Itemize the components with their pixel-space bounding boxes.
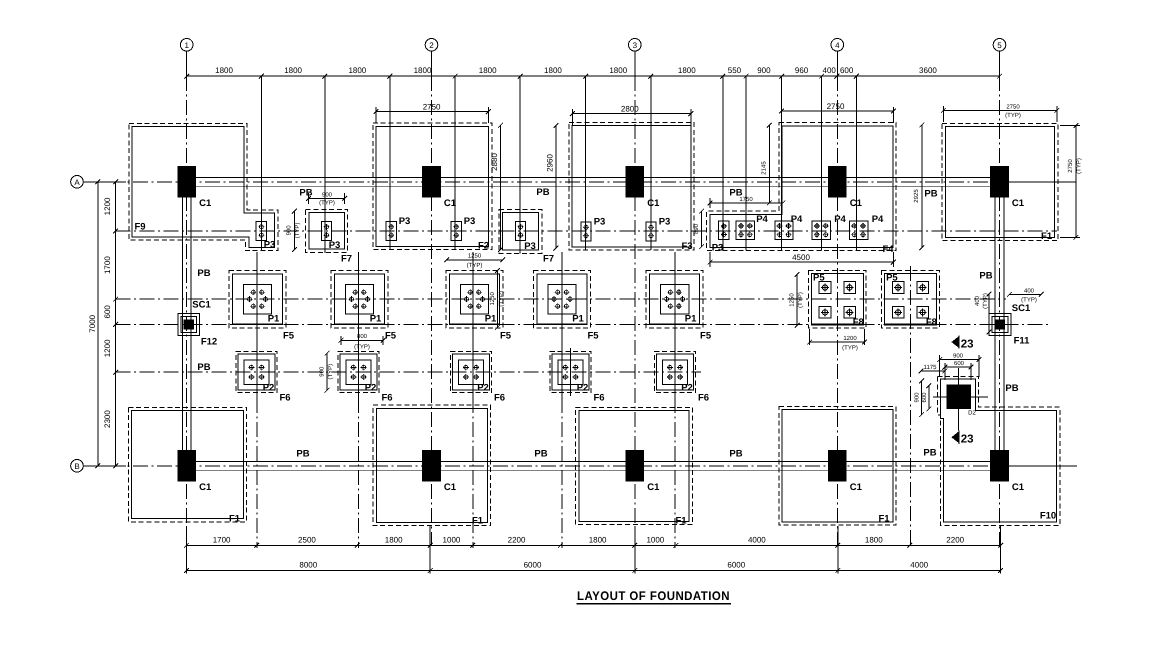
dimension 1750 in F4 strip bbox=[708, 196, 785, 208]
dimension tick bbox=[632, 568, 637, 573]
svg-text:(TYP): (TYP) bbox=[1076, 158, 1083, 174]
dimension tick bbox=[835, 74, 840, 79]
svg-text:F5: F5 bbox=[500, 331, 512, 342]
footing F1 bottom row bbox=[576, 407, 693, 524]
pier centerline vertical bbox=[781, 76, 783, 250]
pier P5 cell bbox=[917, 307, 929, 319]
pier P4 #3 bbox=[812, 221, 830, 239]
footing F1 top-right bbox=[942, 123, 1058, 240]
svg-text:(TYP): (TYP) bbox=[842, 344, 858, 351]
dimension tick bbox=[720, 74, 725, 79]
dimension tick bbox=[835, 568, 840, 573]
footing F2 bbox=[373, 123, 492, 249]
pier centerline vertical bbox=[260, 76, 262, 251]
beam PB along grid 5 bbox=[995, 198, 1004, 450]
svg-text:1250: 1250 bbox=[468, 253, 482, 260]
svg-text:P4: P4 bbox=[834, 214, 846, 225]
svg-text:F1: F1 bbox=[472, 516, 484, 527]
svg-text:PB: PB bbox=[1005, 383, 1018, 394]
svg-text:PB: PB bbox=[296, 449, 309, 460]
dimension tick bbox=[779, 74, 784, 79]
dimension tick bbox=[835, 543, 840, 548]
svg-text:2880: 2880 bbox=[490, 153, 499, 171]
dimension tick bbox=[322, 74, 327, 79]
svg-text:900: 900 bbox=[953, 352, 964, 359]
footing F5 #2 bbox=[331, 271, 388, 328]
grid bubble 4 bbox=[831, 39, 844, 77]
dimension 2750 (TYP) above F1 top-right bbox=[941, 103, 1059, 122]
pier P3 in F3 right bbox=[646, 222, 656, 241]
svg-text:P3: P3 bbox=[712, 242, 724, 253]
svg-text:PB: PB bbox=[197, 362, 210, 373]
dimension 1175 left of D2 bbox=[919, 364, 948, 374]
dimension tick bbox=[819, 74, 824, 79]
svg-text:5: 5 bbox=[997, 41, 1002, 50]
footing F7 #1 bbox=[306, 210, 348, 253]
column C1 bbox=[422, 450, 441, 482]
beam PB along grid 1 bbox=[182, 198, 191, 450]
pier P3 in F7#1 bbox=[321, 222, 331, 241]
grid line B centerline bbox=[85, 465, 1010, 467]
svg-text:LAYOUT OF FOUNDATION: LAYOUT OF FOUNDATION bbox=[577, 589, 730, 603]
pier centerline vertical bbox=[519, 76, 521, 253]
svg-text:3: 3 bbox=[633, 41, 638, 50]
svg-text:600: 600 bbox=[954, 360, 965, 367]
pier centerline vertical bbox=[722, 76, 724, 250]
svg-text:C1: C1 bbox=[647, 482, 660, 493]
dimension tick bbox=[453, 74, 458, 79]
svg-text:F5: F5 bbox=[700, 331, 712, 342]
pier column centerline bbox=[358, 252, 360, 398]
footing F6 #2 bbox=[338, 352, 379, 393]
footing F1 bottom row bbox=[373, 405, 490, 526]
svg-text:P1: P1 bbox=[268, 314, 280, 325]
svg-text:1000: 1000 bbox=[646, 535, 664, 544]
svg-text:600: 600 bbox=[840, 66, 854, 75]
svg-text:P2: P2 bbox=[681, 383, 693, 394]
svg-text:900: 900 bbox=[286, 225, 293, 236]
svg-text:4000: 4000 bbox=[748, 535, 766, 544]
dimension 600 left of D2 vertical bbox=[921, 383, 931, 411]
pier P2 #4 bbox=[558, 360, 583, 384]
title LAYOUT OF FOUNDATION bbox=[577, 589, 732, 604]
dimension tick bbox=[583, 74, 588, 79]
svg-text:1800: 1800 bbox=[678, 66, 696, 75]
pier P1 #5 bbox=[660, 285, 688, 314]
pier centerline vertical bbox=[454, 76, 456, 249]
svg-text:2750: 2750 bbox=[423, 102, 441, 111]
pier column centerline bbox=[674, 252, 676, 398]
svg-text:P3: P3 bbox=[399, 216, 411, 227]
footing F4 inner line bbox=[710, 126, 893, 247]
dimension 400 (TYP) above SC1 right bbox=[1007, 287, 1044, 303]
column C1 bbox=[990, 450, 1009, 482]
svg-text:F6: F6 bbox=[698, 393, 709, 404]
dimension tick bbox=[388, 74, 393, 79]
svg-text:2200: 2200 bbox=[508, 535, 526, 544]
svg-text:C1: C1 bbox=[444, 482, 457, 493]
svg-text:1800: 1800 bbox=[479, 66, 497, 75]
svg-text:F6: F6 bbox=[494, 393, 505, 404]
svg-text:1800: 1800 bbox=[348, 66, 366, 75]
svg-text:3600: 3600 bbox=[919, 66, 937, 75]
svg-text:960: 960 bbox=[795, 66, 809, 75]
svg-text:PB: PB bbox=[729, 449, 742, 460]
dimension 900 (TYP) left of F7#1 bbox=[286, 209, 302, 252]
section marker 23 lower bbox=[951, 431, 973, 446]
svg-text:1800: 1800 bbox=[544, 66, 562, 75]
svg-text:400: 400 bbox=[823, 66, 837, 75]
svg-text:B: B bbox=[74, 462, 79, 471]
top dimension line bbox=[187, 75, 1000, 77]
svg-text:F9: F9 bbox=[134, 222, 145, 233]
svg-text:PB: PB bbox=[924, 189, 937, 200]
footing F9 inner line bbox=[132, 127, 275, 248]
svg-text:SC1: SC1 bbox=[192, 300, 211, 311]
dimension tick bbox=[428, 543, 433, 548]
pier P3 in F4 strip bbox=[719, 221, 729, 240]
column C1 bbox=[625, 450, 644, 482]
pier centerline vertical bbox=[821, 76, 823, 250]
column C1 bbox=[625, 166, 644, 198]
svg-text:F7: F7 bbox=[543, 254, 554, 265]
svg-text:P2: P2 bbox=[477, 383, 489, 394]
svg-text:P3: P3 bbox=[594, 217, 606, 228]
footing F8 #1 bbox=[808, 271, 866, 329]
svg-text:C1: C1 bbox=[1012, 482, 1025, 493]
svg-text:P1: P1 bbox=[685, 314, 697, 325]
pier P3 in F7#2 bbox=[515, 222, 525, 241]
pier P2 #5 bbox=[663, 360, 688, 384]
svg-text:F5: F5 bbox=[385, 331, 397, 342]
footing F4 (L-shaped) outer dashed bbox=[707, 123, 896, 251]
svg-text:1700: 1700 bbox=[103, 256, 112, 274]
svg-text:1000: 1000 bbox=[443, 535, 461, 544]
svg-text:900: 900 bbox=[914, 392, 921, 403]
pier P5 cell bbox=[844, 282, 856, 294]
grid bubble A bbox=[71, 176, 126, 189]
pier column centerline bbox=[472, 252, 474, 398]
footing F10 inner line bbox=[941, 379, 1057, 522]
dimension 1200 (TYP) below F8#1 bbox=[807, 329, 867, 351]
dimension tick bbox=[998, 568, 1003, 573]
svg-text:4500: 4500 bbox=[792, 253, 810, 262]
pier P1 #4 bbox=[548, 285, 576, 314]
dimension tick bbox=[998, 543, 1003, 548]
svg-text:900: 900 bbox=[757, 66, 771, 75]
pier D2 bbox=[933, 368, 988, 431]
footing F5 #4 bbox=[533, 271, 590, 328]
pier P4 #4 bbox=[849, 221, 867, 239]
footing F3 bbox=[569, 122, 694, 250]
dimension 890 left of F4 strip bbox=[693, 209, 704, 249]
grid line 3 centerline bbox=[634, 76, 636, 545]
dimension 800 (TYP) above F6#2 bbox=[339, 333, 386, 350]
pier P1 #3 bbox=[460, 285, 488, 314]
dimension tick bbox=[518, 74, 523, 79]
svg-text:(TYP): (TYP) bbox=[982, 293, 989, 309]
svg-text:(TYP): (TYP) bbox=[354, 344, 370, 351]
svg-text:1200: 1200 bbox=[103, 197, 112, 215]
dimension 2960 left of F3 bbox=[545, 123, 558, 251]
pier column centerline bbox=[256, 252, 258, 398]
svg-text:F7: F7 bbox=[341, 253, 352, 264]
svg-text:4000: 4000 bbox=[910, 561, 928, 570]
dimension tick bbox=[674, 543, 679, 548]
svg-text:2300: 2300 bbox=[103, 410, 112, 428]
pier P4 #1 bbox=[736, 221, 754, 239]
dimension 1250 (TYP) right of F5#3 bbox=[489, 268, 505, 330]
pier P3 in F2 right bbox=[451, 222, 461, 241]
grid bubble B bbox=[71, 460, 126, 473]
footing F1 bottom row bbox=[128, 407, 246, 522]
footing F6 #5 bbox=[654, 352, 695, 393]
footing F8#2 centerline bbox=[909, 266, 911, 548]
footing F1 bottom row bbox=[779, 406, 896, 525]
svg-text:SC1: SC1 bbox=[1012, 303, 1031, 314]
svg-text:6000: 6000 bbox=[524, 561, 542, 570]
grid bubble 1 bbox=[180, 39, 193, 77]
grid line 5 centerline bbox=[999, 76, 1001, 545]
pier P5 cell bbox=[819, 282, 831, 294]
dimension tick bbox=[470, 543, 475, 548]
footing F9 (stepped) outer dashed bbox=[129, 124, 278, 251]
pier centerline vertical bbox=[650, 76, 652, 250]
footing F5 #5 bbox=[646, 271, 703, 328]
pier P4 #2 bbox=[775, 221, 793, 239]
svg-text:F6: F6 bbox=[279, 393, 290, 404]
dimension tick bbox=[355, 543, 360, 548]
svg-text:900: 900 bbox=[322, 191, 333, 198]
pier P1 #2 bbox=[345, 285, 373, 314]
svg-text:F2: F2 bbox=[478, 241, 489, 252]
svg-text:C1: C1 bbox=[850, 482, 863, 493]
svg-text:P3: P3 bbox=[659, 217, 671, 228]
footing F6 #4 bbox=[550, 352, 591, 393]
svg-text:2750: 2750 bbox=[1006, 103, 1020, 110]
svg-text:(TYP): (TYP) bbox=[319, 200, 335, 207]
svg-text:PB: PB bbox=[923, 448, 936, 459]
dimension 900 above D2 bbox=[937, 352, 981, 377]
beam PB along grid A bbox=[196, 177, 990, 186]
svg-text:C1: C1 bbox=[199, 482, 212, 493]
svg-text:1800: 1800 bbox=[284, 66, 302, 75]
svg-text:F5: F5 bbox=[587, 331, 599, 342]
svg-text:1200: 1200 bbox=[843, 335, 857, 342]
footing F5 #3 bbox=[446, 271, 503, 328]
svg-text:F1: F1 bbox=[675, 516, 687, 527]
grid bubble 5 bbox=[993, 39, 1006, 77]
dimension tick bbox=[428, 568, 433, 573]
column C1 bbox=[422, 166, 441, 198]
grid bubble 3 bbox=[629, 39, 642, 77]
dimension tick bbox=[184, 543, 189, 548]
grid line A centerline bbox=[85, 181, 1010, 183]
svg-text:1800: 1800 bbox=[215, 66, 233, 75]
dimension 1250 (TYP) left of F8#1 bbox=[789, 272, 805, 328]
pier P2 #1 bbox=[244, 360, 269, 384]
pier centerline vertical bbox=[745, 76, 747, 250]
extension line bbox=[837, 526, 839, 574]
footing F6 #1 bbox=[236, 352, 277, 393]
svg-text:550: 550 bbox=[728, 66, 742, 75]
SC1 row centerline y=324 bbox=[116, 323, 1048, 325]
extension line bbox=[634, 526, 636, 574]
svg-text:F3: F3 bbox=[681, 241, 692, 252]
svg-text:1175: 1175 bbox=[924, 364, 938, 371]
column C1 bbox=[828, 166, 847, 198]
column C1 bbox=[177, 166, 196, 198]
svg-text:400: 400 bbox=[1024, 287, 1035, 294]
dimension 2145 left of F4 bbox=[761, 123, 772, 206]
svg-text:(TYP): (TYP) bbox=[1005, 112, 1021, 119]
grid bubble 2 bbox=[425, 39, 438, 77]
svg-text:C1: C1 bbox=[850, 198, 863, 209]
svg-text:1200: 1200 bbox=[103, 339, 112, 357]
svg-text:7000: 7000 bbox=[88, 314, 97, 332]
dimension 2750 above F2 bbox=[374, 102, 491, 123]
footing F6 #3 bbox=[450, 352, 491, 393]
dimension tick bbox=[254, 543, 259, 548]
extension line bbox=[1000, 526, 1002, 574]
svg-text:F1: F1 bbox=[1041, 231, 1053, 242]
svg-text:F12: F12 bbox=[201, 337, 217, 348]
P3/P4 pier row centerline y=231 bbox=[116, 230, 1057, 232]
svg-text:2800: 2800 bbox=[621, 104, 639, 113]
svg-text:2200: 2200 bbox=[946, 535, 964, 544]
svg-text:2960: 2960 bbox=[545, 154, 554, 172]
svg-text:4: 4 bbox=[835, 41, 840, 50]
svg-text:C1: C1 bbox=[647, 198, 660, 209]
extension line bbox=[429, 526, 431, 574]
pier P2 #3 bbox=[459, 360, 484, 384]
svg-text:P2: P2 bbox=[577, 383, 589, 394]
svg-text:6000: 6000 bbox=[727, 561, 745, 570]
svg-text:2750: 2750 bbox=[827, 102, 845, 111]
svg-text:8000: 8000 bbox=[299, 561, 317, 570]
svg-text:A: A bbox=[74, 178, 80, 187]
svg-text:F6: F6 bbox=[593, 393, 604, 404]
svg-text:C1: C1 bbox=[444, 198, 457, 209]
beam PB along grid B bbox=[196, 461, 990, 470]
svg-text:F6: F6 bbox=[381, 393, 392, 404]
pier P2 #2 bbox=[346, 360, 371, 384]
section marker 23 upper bbox=[951, 335, 973, 350]
svg-text:F1: F1 bbox=[878, 514, 890, 525]
svg-text:P3: P3 bbox=[329, 240, 341, 251]
column SC1 bbox=[989, 313, 1011, 335]
svg-text:2925: 2925 bbox=[913, 189, 920, 203]
footing F5 #1 bbox=[229, 271, 286, 328]
dimension tick bbox=[648, 74, 653, 79]
svg-text:PB: PB bbox=[536, 187, 549, 198]
svg-text:F10: F10 bbox=[1040, 511, 1056, 522]
svg-text:800: 800 bbox=[357, 333, 368, 340]
pier centerline vertical bbox=[585, 76, 587, 250]
svg-text:P1: P1 bbox=[370, 314, 382, 325]
dimension tick bbox=[184, 568, 189, 573]
svg-text:P1: P1 bbox=[485, 314, 497, 325]
dimension tick bbox=[184, 74, 189, 79]
bottom dimension line row 1 bbox=[186, 544, 1000, 546]
pier P5 cell bbox=[844, 307, 856, 319]
svg-text:C1: C1 bbox=[199, 198, 212, 209]
dimension 400 (TYP) left of SC1 right bbox=[974, 292, 991, 335]
P1 pier row centerline y=299 bbox=[116, 298, 1006, 300]
footing F7 #2 bbox=[499, 210, 542, 254]
svg-text:890: 890 bbox=[693, 223, 700, 234]
P2 pier row centerline y=372 bbox=[116, 371, 701, 373]
svg-text:1800: 1800 bbox=[414, 66, 432, 75]
overall dimension 7000 bbox=[88, 182, 98, 466]
svg-text:1800: 1800 bbox=[865, 535, 883, 544]
svg-text:PB: PB bbox=[534, 449, 547, 460]
pier P5 cell bbox=[917, 282, 929, 294]
svg-text:2500: 2500 bbox=[298, 535, 316, 544]
dimension 2800 above F3 bbox=[570, 104, 693, 125]
svg-text:D2: D2 bbox=[968, 410, 976, 417]
left detail dimension line bbox=[103, 179, 118, 468]
svg-text:1: 1 bbox=[184, 41, 189, 50]
column C1 bbox=[828, 450, 847, 482]
svg-text:P5: P5 bbox=[813, 273, 825, 284]
svg-text:23: 23 bbox=[961, 338, 974, 350]
svg-text:1250: 1250 bbox=[489, 291, 496, 305]
svg-text:P3: P3 bbox=[464, 216, 476, 227]
dimension 2750 above F4 bbox=[779, 102, 896, 123]
dimension 4500 below F4 bbox=[708, 252, 896, 267]
svg-text:F4: F4 bbox=[882, 244, 894, 255]
grid line 2 centerline bbox=[431, 76, 433, 545]
svg-text:(TYP): (TYP) bbox=[797, 292, 804, 308]
pier centerline vertical bbox=[389, 76, 391, 249]
svg-text:PB: PB bbox=[979, 271, 992, 282]
svg-text:P4: P4 bbox=[872, 214, 884, 225]
svg-text:2: 2 bbox=[429, 41, 434, 50]
dimension tick bbox=[558, 543, 563, 548]
dimension tick bbox=[997, 74, 1002, 79]
svg-text:(TYP): (TYP) bbox=[467, 262, 483, 269]
dimension 2925 right of F4 bbox=[913, 123, 924, 251]
pier P5 cell bbox=[892, 282, 904, 294]
svg-text:P1: P1 bbox=[572, 314, 584, 325]
dimension tick bbox=[907, 543, 912, 548]
pier P3 in F3 left bbox=[581, 222, 591, 241]
pier column centerline bbox=[561, 252, 563, 398]
pier centerline vertical bbox=[324, 76, 326, 253]
svg-text:1700: 1700 bbox=[213, 535, 231, 544]
dimension 1250 (TYP) above F5#3 bbox=[444, 253, 505, 269]
dimension tick bbox=[632, 543, 637, 548]
dimension 900 (TYP) above F7#1 bbox=[306, 191, 347, 206]
svg-text:900: 900 bbox=[319, 366, 326, 377]
svg-text:F8: F8 bbox=[853, 317, 864, 328]
dimension tick bbox=[854, 74, 859, 79]
pier P3 in F2 left bbox=[386, 222, 396, 241]
svg-text:F5: F5 bbox=[283, 331, 295, 342]
svg-text:P3: P3 bbox=[264, 240, 276, 251]
dimension 2750 (TYP) right of F1 top-right bbox=[1060, 123, 1083, 240]
svg-text:600: 600 bbox=[103, 305, 112, 319]
svg-text:1800: 1800 bbox=[589, 535, 607, 544]
svg-text:F1: F1 bbox=[229, 514, 241, 525]
dimension 900 (TYP) left of F6#2 bbox=[319, 351, 335, 393]
svg-text:1800: 1800 bbox=[385, 535, 403, 544]
footing F8 #2 bbox=[882, 271, 940, 329]
svg-text:2750: 2750 bbox=[1067, 159, 1074, 173]
svg-text:C1: C1 bbox=[1012, 198, 1025, 209]
pier P5 cell bbox=[819, 307, 831, 319]
